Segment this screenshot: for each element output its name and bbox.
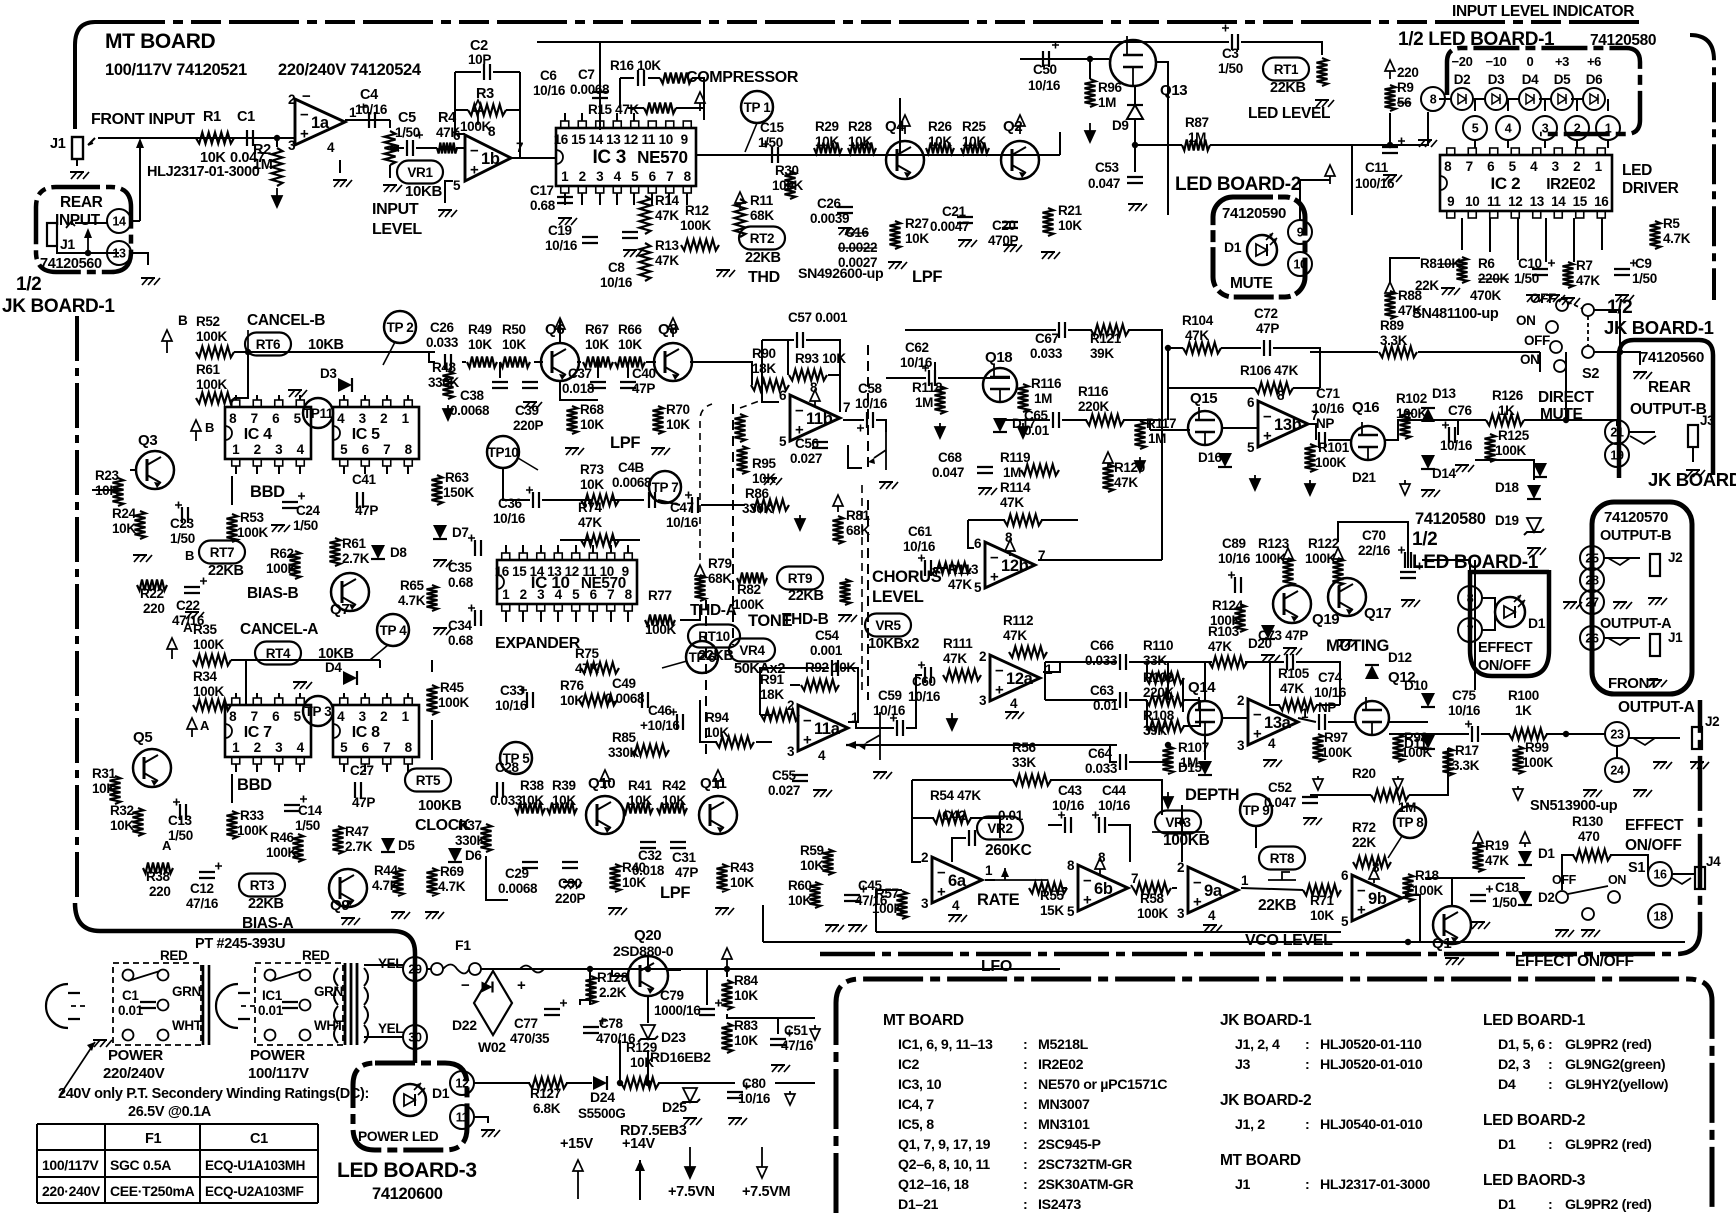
wire IC4 top stub: [256, 395, 258, 400]
svg-text:R69: R69: [440, 864, 464, 879]
resistor R51: [196, 393, 234, 404]
wire c47 r86: [701, 504, 745, 506]
IC IC 10: [497, 560, 637, 604]
svg-text:0.033: 0.033: [1085, 653, 1118, 668]
svg-text:C67: C67: [1035, 331, 1059, 346]
wire to led8: [1390, 112, 1428, 145]
svg-text:0.0068: 0.0068: [450, 403, 490, 418]
wire c57 l: [762, 339, 794, 341]
resistor R23: [113, 478, 124, 506]
svg-text:RT7: RT7: [210, 545, 234, 560]
svg-text:220: 220: [1397, 65, 1418, 80]
ground 11: [481, 1129, 495, 1131]
svg-text:6: 6: [272, 709, 280, 724]
wire c2 top r: [493, 71, 520, 73]
wire c63: [1045, 699, 1117, 701]
svg-text:10/16: 10/16: [855, 396, 888, 411]
plus sign: [922, 365, 929, 372]
svg-text:10K: 10K: [705, 725, 729, 740]
tp8 arrow: [1388, 836, 1402, 858]
winding2: [364, 987, 368, 1005]
svg-text:+: +: [995, 682, 1004, 699]
resistor R87: [1182, 140, 1210, 151]
wire led: [1539, 98, 1551, 100]
wire r100 23: [1546, 733, 1605, 735]
wire IC10 top stub: [522, 545, 524, 553]
resistor R82: [737, 573, 767, 584]
svg-text:−: −: [995, 663, 1004, 680]
plus C3: [1222, 25, 1229, 32]
ground: [1421, 489, 1435, 491]
capacitor C70cap: [1400, 572, 1416, 578]
ground c70: [1401, 599, 1415, 601]
svg-text:RED: RED: [160, 948, 188, 963]
svg-text:R59: R59: [800, 843, 824, 858]
svg-text::: :: [1548, 1037, 1552, 1053]
diode D4: [343, 671, 357, 685]
svg-text:Q15: Q15: [1190, 390, 1217, 407]
wire r56 r: [1050, 780, 1162, 815]
svg-text:330K: 330K: [455, 833, 486, 848]
resistor R128: [586, 976, 597, 1004]
ground: [70, 171, 84, 173]
wire IC10 pin stub: [627, 611, 629, 622]
svg-text:HLJ0540-01-010: HLJ0540-01-010: [1320, 1117, 1423, 1133]
resistor R70: [653, 406, 664, 434]
wire c70: [1338, 522, 1408, 568]
svg-text:330K: 330K: [428, 375, 459, 390]
svg-text:100K: 100K: [438, 695, 469, 710]
wire IC4 top stub: [299, 395, 301, 400]
resistor R94x: [716, 737, 754, 748]
svg-text:47K: 47K: [1485, 853, 1509, 868]
switch lever 1: [128, 971, 160, 981]
svg-text:D15: D15: [1178, 760, 1203, 775]
svg-text:10K: 10K: [730, 875, 754, 890]
pin 23: [1605, 722, 1629, 746]
svg-text:R85: R85: [612, 730, 637, 745]
svg-text:100K: 100K: [645, 622, 676, 637]
diode D6: [448, 848, 462, 862]
svg-text:4: 4: [337, 709, 345, 724]
svg-text:100K: 100K: [1522, 755, 1553, 770]
ground: [888, 261, 902, 263]
capacitor C26cap: [445, 354, 451, 370]
svg-text:TP 9: TP 9: [1243, 803, 1270, 818]
svg-text:C34: C34: [448, 618, 473, 633]
wire 6b r58: [1131, 885, 1133, 888]
wire c2 top l: [455, 71, 481, 73]
svg-text:16: 16: [1653, 868, 1667, 882]
svg-text:9: 9: [1447, 194, 1454, 209]
svg-text:S2: S2: [1582, 366, 1599, 382]
svg-text:13: 13: [606, 132, 621, 147]
LED at 1530: [1519, 88, 1541, 110]
svg-text:J1, 2: J1, 2: [1235, 1117, 1265, 1133]
jack J1 rear: [47, 223, 57, 246]
svg-text:J1: J1: [50, 136, 66, 152]
contact: [123, 970, 134, 981]
resistor R122x: [1333, 558, 1344, 586]
ground c24: [271, 524, 285, 526]
pin 4 led: [1496, 116, 1520, 140]
svg-text:R54 47K: R54 47K: [930, 788, 981, 803]
contact2: [300, 970, 311, 981]
wire r15 l: [628, 107, 644, 109]
svg-text:R57: R57: [875, 886, 899, 901]
wire r54 l: [912, 817, 934, 819]
svg-text:CANCEL-B: CANCEL-B: [247, 312, 325, 329]
capacitor C45: [844, 895, 860, 901]
svg-text:15K: 15K: [1040, 903, 1064, 918]
svg-text:10K: 10K: [1058, 218, 1082, 233]
svg-text:+: +: [937, 884, 946, 901]
resistor R48: [443, 371, 454, 399]
plus sign: [1486, 886, 1493, 893]
resistor R129: [621, 1078, 659, 1089]
capacitor C75cap: [1472, 726, 1478, 742]
wire c2 branch: [455, 72, 465, 134]
svg-text:47K: 47K: [655, 208, 679, 223]
capacitor C74cap: [1319, 714, 1325, 730]
svg-text:C68: C68: [938, 450, 963, 465]
wire led: [1439, 98, 1451, 100]
svg-text:1/2: 1/2: [1412, 529, 1437, 550]
svg-text:D1: D1: [1498, 1137, 1516, 1153]
svg-text::: :: [1305, 1037, 1309, 1053]
pin 7 effect: [1458, 618, 1482, 642]
svg-text:R61: R61: [196, 362, 221, 377]
winding2: [364, 1006, 368, 1024]
svg-text:−: −: [1263, 409, 1272, 426]
wire j1 rear sig: [75, 222, 107, 224]
pin 16: [1648, 862, 1672, 886]
svg-text:10K: 10K: [520, 793, 544, 808]
svg-text:R31: R31: [92, 766, 117, 781]
svg-text:TP 6: TP 6: [689, 650, 717, 665]
wire c76 rail: [1440, 419, 1486, 421]
svg-text:14: 14: [1551, 194, 1566, 209]
svg-text:RED: RED: [302, 948, 330, 963]
transistor Q3: [136, 451, 174, 489]
svg-text:4: 4: [1208, 908, 1216, 923]
svg-text:1/2: 1/2: [16, 274, 41, 295]
svg-text::: :: [1023, 1077, 1027, 1093]
svg-text::: :: [1023, 1177, 1027, 1193]
svg-text:R32: R32: [110, 803, 134, 818]
wire c6 v: [599, 42, 601, 88]
wire led to ic2: [1607, 140, 1609, 148]
wire IC10 top stub: [505, 545, 507, 553]
svg-text:22KB: 22KB: [248, 896, 284, 912]
svg-text:8: 8: [405, 740, 413, 755]
jack J2: [1692, 727, 1702, 749]
svg-text::: :: [1548, 1197, 1552, 1213]
svg-text:Q1: Q1: [1432, 935, 1451, 952]
arrow 12a in: [951, 713, 953, 719]
diode D16: [1218, 453, 1232, 467]
trimmer RT9: [777, 567, 823, 590]
svg-text:0.01: 0.01: [118, 1003, 144, 1018]
svg-text:RT5: RT5: [416, 773, 441, 788]
svg-text:GL9PR2 (red): GL9PR2 (red): [1565, 1197, 1652, 1213]
svg-text:3.3K: 3.3K: [1380, 333, 1408, 348]
resistor R42: [657, 803, 687, 814]
svg-text:MT BOARD: MT BOARD: [883, 1012, 964, 1029]
svg-text:R114: R114: [1000, 480, 1031, 495]
ground rt9: [838, 614, 852, 616]
svg-text:+: +: [1253, 726, 1262, 743]
ground 27a: [1563, 601, 1577, 603]
svg-text:16: 16: [1594, 194, 1609, 209]
svg-text:OFF: OFF: [1524, 333, 1550, 348]
svg-text:C19: C19: [548, 223, 572, 238]
svg-text:220·240V: 220·240V: [42, 1183, 101, 1199]
svg-text:5: 5: [294, 411, 302, 426]
arrow q6: [559, 329, 561, 337]
svg-text:OUTPUT-A: OUTPUT-A: [1600, 616, 1672, 632]
wire vr1 gnd: [389, 165, 391, 178]
wire IC3 pin stub: [686, 193, 688, 205]
arrow r96: [1089, 123, 1091, 131]
svg-text:47K: 47K: [1000, 495, 1024, 510]
svg-text:POWER: POWER: [108, 1047, 163, 1064]
resistor R92x: [801, 680, 839, 691]
arrow d1: [1524, 843, 1526, 847]
pin 13: [107, 241, 131, 265]
svg-text:GL9HY2(yellow): GL9HY2(yellow): [1565, 1077, 1669, 1093]
wire r18 s1: [1425, 877, 1478, 879]
wire c59: [856, 722, 894, 728]
wire 26 jack: [1604, 637, 1640, 639]
svg-text:D14: D14: [1432, 466, 1457, 481]
ground: [1441, 287, 1455, 289]
pin 30: [403, 1025, 427, 1049]
junction: [724, 966, 730, 972]
wire r130 off: [1562, 855, 1574, 890]
wire IC2 pin stub: [1517, 218, 1519, 260]
resistor R77: [645, 615, 675, 626]
wire r84 up: [726, 969, 728, 977]
svg-text:R42: R42: [662, 778, 686, 793]
resistor R99: [1513, 746, 1524, 774]
capacitor C1p: [140, 1002, 156, 1008]
wire IC10 top stub: [575, 545, 577, 553]
svg-text:11: 11: [641, 132, 655, 147]
capacitor C48cap: [649, 492, 655, 508]
svg-text:D12: D12: [1388, 650, 1412, 665]
svg-text:R61: R61: [342, 536, 367, 551]
svg-text:R129: R129: [626, 1040, 657, 1055]
wire IC3 top stub: [581, 113, 583, 121]
svg-text:C61: C61: [908, 524, 933, 539]
svg-text:CANCEL-A: CANCEL-A: [240, 621, 318, 638]
svg-text:47K: 47K: [655, 253, 679, 268]
svg-text:10K: 10K: [112, 521, 136, 536]
svg-text:HLJ0520-01-110: HLJ0520-01-110: [1320, 1037, 1422, 1053]
svg-text:8: 8: [1067, 858, 1075, 873]
svg-text:12: 12: [1508, 194, 1522, 209]
svg-text:R130: R130: [1572, 814, 1603, 829]
resistor R125: [1485, 434, 1496, 462]
svg-text:100K: 100K: [1321, 745, 1352, 760]
resistor R44: [393, 868, 404, 896]
arrow r99: [1517, 786, 1519, 789]
pot chorus: [874, 432, 886, 470]
trimmer RT2: [739, 227, 785, 250]
svg-text:D21: D21: [1352, 470, 1377, 485]
resistor R21: [1043, 208, 1054, 236]
svg-text:11: 11: [456, 1111, 469, 1125]
trimmer RT5: [405, 769, 451, 792]
svg-text:R47: R47: [345, 824, 369, 839]
wire IC3 pin stub: [616, 193, 618, 205]
resistor R57: [897, 891, 908, 919]
LED at 1594: [1583, 88, 1605, 110]
svg-text:47/16: 47/16: [781, 1038, 814, 1053]
ground c22: [185, 611, 199, 613]
svg-text:C49: C49: [612, 676, 636, 691]
diode D20: [1261, 625, 1275, 639]
svg-text:SN492600-up: SN492600-up: [798, 266, 884, 282]
svg-text:100K: 100K: [196, 377, 227, 392]
resistor R46: [293, 834, 304, 862]
svg-text:R111: R111: [943, 636, 973, 651]
resistor R49: [467, 357, 497, 368]
svg-text:RT3: RT3: [250, 878, 275, 893]
capacitor C22: [184, 587, 200, 593]
svg-text:M5218L: M5218L: [1038, 1037, 1089, 1053]
wire c77 join: [580, 1000, 590, 1005]
ground d25: [683, 1117, 697, 1119]
svg-text:R38: R38: [520, 778, 545, 793]
arrow q10: [604, 781, 606, 789]
wire to q15: [1150, 429, 1160, 431]
svg-text:3: 3: [1542, 122, 1549, 136]
svg-text:47K: 47K: [578, 515, 602, 530]
svg-text:0.0068: 0.0068: [570, 82, 610, 97]
svg-text:C3: C3: [1222, 46, 1239, 61]
svg-text:1M: 1M: [1003, 465, 1021, 480]
capacitor C2: [484, 64, 490, 80]
resistor R9v: [1385, 85, 1396, 111]
svg-text:IC 10: IC 10: [531, 573, 570, 592]
plus sign C4: [360, 104, 367, 111]
switch S1: [1556, 891, 1568, 903]
svg-text:C58: C58: [858, 381, 883, 396]
svg-text:MUTE: MUTE: [1230, 275, 1273, 292]
svg-text:R122: R122: [1308, 536, 1339, 551]
svg-text:R46: R46: [270, 830, 295, 845]
svg-text:EFFECT: EFFECT: [1625, 817, 1684, 834]
resistor R7: [1563, 262, 1574, 288]
op-amp 6a: [932, 857, 982, 903]
svg-text:2: 2: [254, 442, 261, 457]
svg-text:BIAS-B: BIAS-B: [247, 585, 298, 602]
wire r96 drop: [1089, 59, 1091, 79]
LED at 1562: [1551, 88, 1573, 110]
arrow r115: [1022, 423, 1024, 427]
svg-text:47P: 47P: [675, 865, 698, 880]
svg-text:J2: J2: [1668, 550, 1682, 565]
svg-text:IC 3: IC 3: [592, 147, 625, 168]
svg-text:C36: C36: [498, 496, 523, 511]
svg-text:R1: R1: [203, 109, 221, 125]
svg-text:100K: 100K: [193, 637, 224, 652]
svg-text:100K: 100K: [237, 525, 268, 540]
wire c76 r126: [1457, 420, 1459, 435]
test point TP10: [487, 436, 519, 468]
svg-text:10K: 10K: [905, 231, 929, 246]
svg-text:47K: 47K: [1208, 639, 1232, 654]
svg-text:C24: C24: [296, 503, 321, 518]
svg-text:10K: 10K: [560, 693, 584, 708]
svg-text:IC 7: IC 7: [244, 724, 272, 741]
wire f1 r: [481, 968, 520, 970]
svg-text:S5500G: S5500G: [578, 1106, 625, 1121]
diode D14: [1421, 455, 1435, 469]
resistor R30: [785, 171, 796, 199]
svg-text:CEE·T250mA: CEE·T250mA: [110, 1183, 195, 1199]
svg-text:+6: +6: [1587, 54, 1601, 69]
resistor R61b: [330, 538, 341, 566]
svg-text:100K: 100K: [733, 597, 764, 612]
svg-text:6.8K: 6.8K: [533, 1101, 561, 1116]
test point TP3: [303, 696, 333, 726]
pot VR1 arrow: [390, 147, 404, 149]
wire led pin: [1576, 99, 1578, 111]
svg-text:10: 10: [1293, 258, 1307, 272]
wire lfo rail: [763, 941, 1685, 943]
plug dash: [241, 1005, 259, 1007]
svg-text:10K: 10K: [962, 134, 986, 149]
svg-text:10P: 10P: [468, 52, 491, 67]
svg-text:R44: R44: [374, 863, 399, 878]
op-amp 9b: [1352, 875, 1402, 921]
junction: [587, 966, 593, 972]
wire IC5 bot stub: [386, 466, 388, 474]
junction: [274, 135, 280, 141]
svg-text:C16: C16: [845, 225, 870, 240]
resistor R110x: [1146, 673, 1184, 684]
wire led: [1507, 98, 1519, 100]
resistor R29: [814, 143, 842, 154]
ground 1b: [438, 209, 452, 211]
wire IC2 pin stub: [1545, 218, 1547, 262]
svg-text:8: 8: [229, 411, 237, 426]
svg-text:Q14: Q14: [1188, 679, 1216, 696]
svg-text:6: 6: [1341, 868, 1349, 883]
capacitor C64cap: [1120, 754, 1126, 770]
svg-text:IC4, 7: IC4, 7: [898, 1097, 934, 1113]
svg-text:LED BOARD-2: LED BOARD-2: [1175, 174, 1301, 195]
svg-text:THD-A: THD-A: [690, 602, 737, 619]
svg-text:OUTPUT-B: OUTPUT-B: [1600, 528, 1671, 544]
svg-text:12: 12: [624, 132, 638, 147]
svg-text:6b: 6b: [1094, 880, 1113, 898]
resistor R108x: [1146, 721, 1184, 732]
capacitor C11cap: [1382, 147, 1398, 153]
wire to 21: [1524, 420, 1617, 426]
svg-text:25: 25: [1585, 552, 1599, 566]
junction: [245, 349, 251, 355]
zener D23: [641, 1025, 655, 1039]
svg-text:D1: D1: [1224, 239, 1242, 255]
svg-text:D7: D7: [452, 525, 469, 540]
wire r103 q14 join: [1167, 662, 1169, 700]
wire IC2 pin stub: [1601, 218, 1603, 250]
svg-text:11a: 11a: [814, 720, 841, 738]
